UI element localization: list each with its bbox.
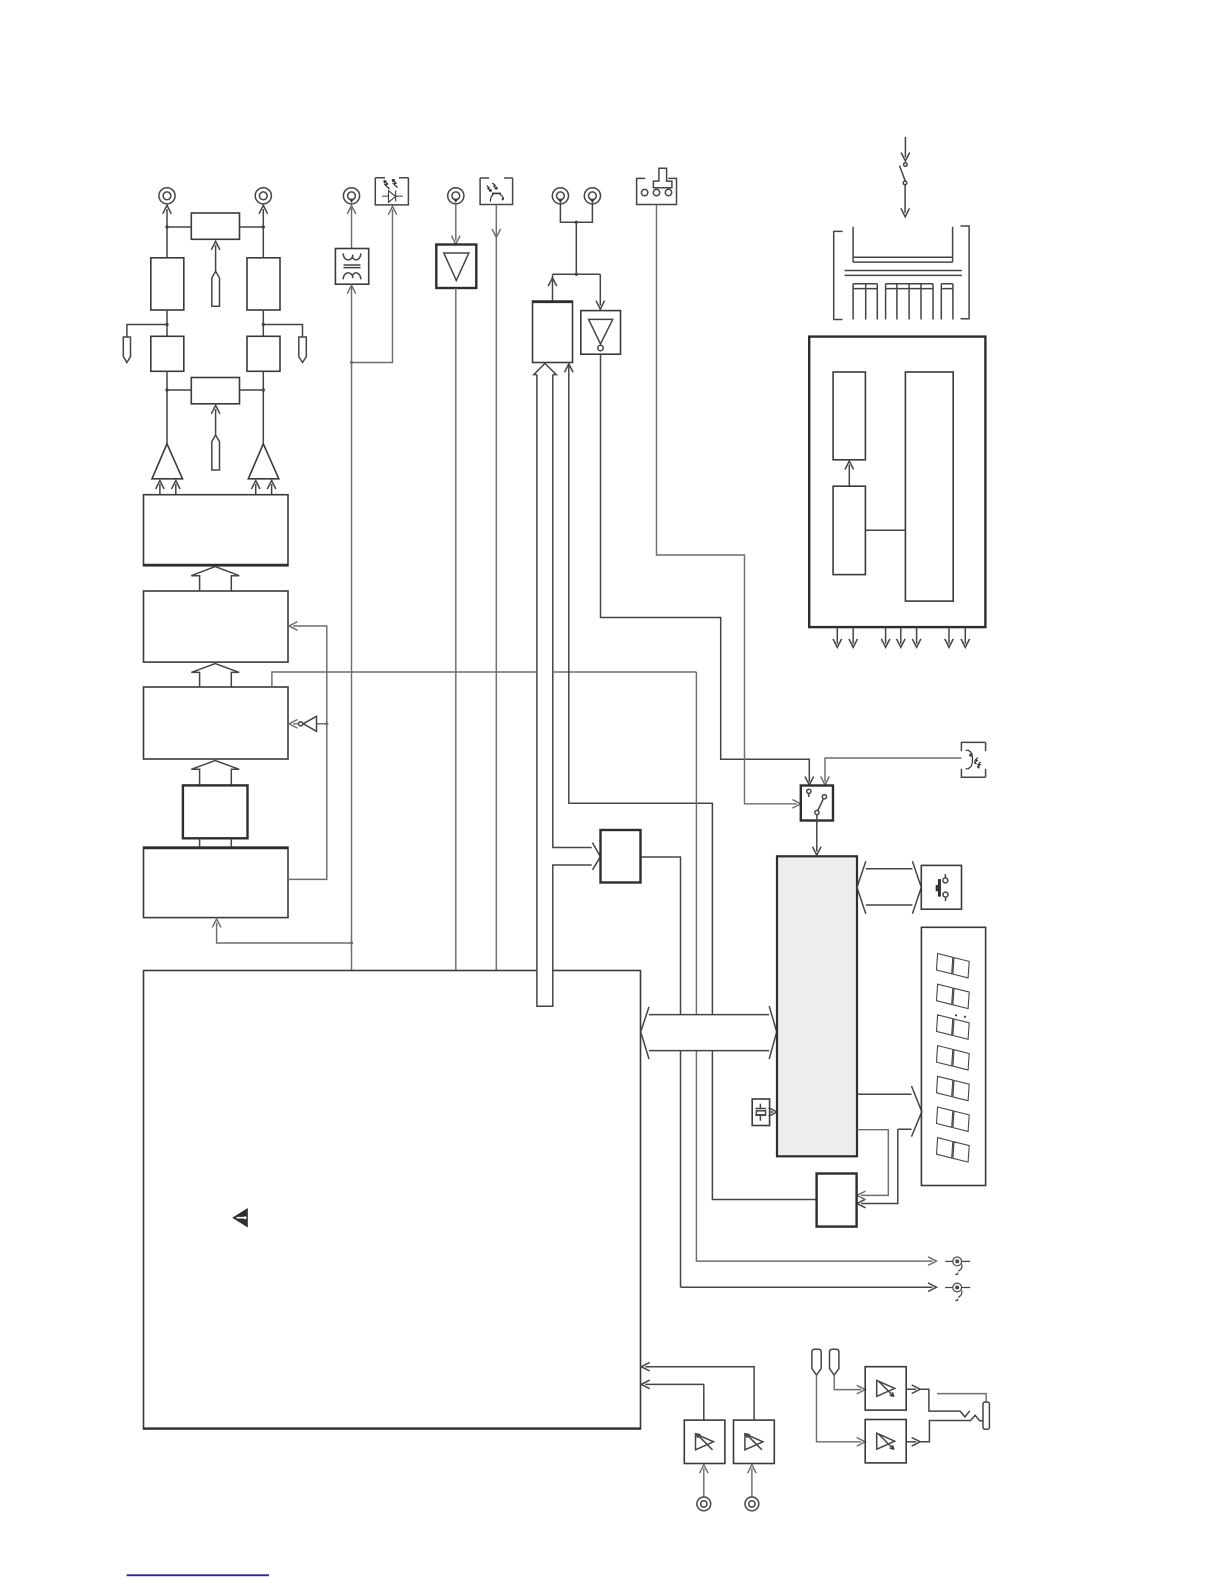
wire arrow up into J2 xyxy=(262,209,264,227)
audio out box xyxy=(533,301,573,363)
wire mute box down xyxy=(601,354,810,782)
terminal J6 xyxy=(584,188,600,204)
node on AGC line xyxy=(325,722,328,725)
links xyxy=(200,838,232,847)
arrow up from audio box xyxy=(552,274,554,301)
speaker amp triangle R xyxy=(248,444,278,479)
regulator box 1 xyxy=(833,372,865,460)
transformer windings xyxy=(343,253,361,279)
rec out jack 2 xyxy=(945,1283,970,1301)
wire xyxy=(167,227,263,258)
key button icon xyxy=(936,885,938,891)
tag label 2 xyxy=(212,435,220,470)
wire J3 to transformer xyxy=(351,206,353,249)
box trap R xyxy=(247,336,280,371)
LED indicator box xyxy=(375,178,408,205)
arrow down into mute box xyxy=(599,274,601,305)
wire down from junction xyxy=(575,222,577,274)
power supply outer box xyxy=(809,337,985,627)
arrow from tag1 up into matching box xyxy=(215,245,217,271)
wire down from PB2 with mid arrow to big box xyxy=(495,205,497,971)
hp amp box 2 xyxy=(865,1420,906,1463)
battery cells xyxy=(853,284,953,320)
attenuator box with triangle xyxy=(436,245,476,289)
box matching top xyxy=(191,213,239,239)
arrow up into transformer bottom xyxy=(347,285,356,294)
wire xyxy=(167,226,263,228)
long wire down from transformer to big box xyxy=(351,285,353,970)
arrow reg2 to reg1 xyxy=(848,465,850,486)
pin connector R xyxy=(299,337,307,363)
supply output arrows xyxy=(837,627,965,644)
wire PB3 to switch box xyxy=(825,758,961,782)
speaker amp triangle L xyxy=(152,444,183,479)
hp amp box 1 xyxy=(865,1367,906,1410)
band switch box xyxy=(801,786,833,821)
branch wire to LED indicator xyxy=(352,210,393,363)
jack sleeve xyxy=(983,1402,989,1429)
terminal J3 ext antenna xyxy=(343,188,359,204)
jack tip line xyxy=(937,1394,986,1403)
terminal J1 xyxy=(159,188,175,204)
terminal J2 xyxy=(255,188,271,204)
PB3 symbol xyxy=(966,750,981,769)
colon dots xyxy=(955,1014,957,1016)
LED symbol xyxy=(382,179,403,202)
terminal J5 xyxy=(552,188,568,204)
wire split to audio and mute boxes xyxy=(553,273,601,275)
arrows up into amp R xyxy=(255,484,257,495)
AGC feedback loop xyxy=(288,626,327,879)
long control line to demod xyxy=(272,672,697,687)
wire arrow up into J3 xyxy=(347,206,356,215)
remote photo sensor box PB3 xyxy=(961,742,985,777)
regulator box 2 xyxy=(833,486,865,574)
wire arrow up into J1 xyxy=(166,209,168,227)
key matrix double arrow xyxy=(857,861,921,914)
wire DC-in to power switch box xyxy=(657,205,797,804)
AF filter box xyxy=(144,591,289,662)
wire attenuator down to big box xyxy=(455,288,457,971)
wire switch box to MCU xyxy=(816,821,818,852)
terminal J7 xyxy=(697,1497,711,1511)
IF amp box xyxy=(144,847,289,918)
terminal J4 xyxy=(448,188,464,204)
wire crystal to MCU xyxy=(770,1111,774,1113)
node dot xyxy=(575,221,578,224)
mixer / PLL box xyxy=(601,830,641,883)
hp amp 2 output to jack contact xyxy=(906,1441,916,1443)
IF signal line from audio box down around to option box xyxy=(569,364,817,1200)
box filter R xyxy=(247,258,280,310)
wires joining J5 J6 xyxy=(560,203,592,222)
wire xyxy=(167,310,263,336)
data bus big arrow white fill xyxy=(534,363,557,1006)
option/backup box xyxy=(817,1174,857,1227)
block arrow 3 xyxy=(191,761,239,786)
box trap L xyxy=(151,336,184,371)
crystal box xyxy=(752,1099,769,1126)
tune arrows from volume amps into big box xyxy=(645,1367,754,1420)
IF filter box xyxy=(183,785,248,838)
hp amp 1 output to jack contact xyxy=(906,1388,916,1390)
node dots xyxy=(165,323,168,326)
photo sensor box PB2 xyxy=(480,178,512,205)
node dot xyxy=(350,941,353,944)
node dot xyxy=(575,273,578,276)
volume pot box 1 xyxy=(684,1420,725,1463)
crystal X1 symbol xyxy=(755,1104,766,1121)
transformer T1 box xyxy=(335,249,368,285)
key box xyxy=(921,865,961,909)
footer link line xyxy=(127,1574,269,1576)
control bus double arrow between big box and MCU xyxy=(641,1006,777,1059)
line from mixer out down to rec out 2 xyxy=(641,857,933,1287)
wire from ext ant line into IF amp bottom xyxy=(217,923,352,943)
box filter L xyxy=(151,258,184,310)
wire down from J4 with arrow into attenuator xyxy=(455,204,457,240)
node dots xyxy=(165,388,168,391)
arrows up into amp L xyxy=(159,484,161,495)
tag label 1 xyxy=(212,271,220,306)
dc-dc tall box xyxy=(905,372,953,601)
arrows from terminals up into volume pots xyxy=(703,1468,705,1496)
wire xyxy=(167,371,263,444)
branch to option box gray xyxy=(857,1130,888,1196)
jack insert mark J3 xyxy=(349,199,354,203)
wires tags to hp amps xyxy=(834,1375,861,1390)
terminal J8 xyxy=(745,1497,759,1511)
LCD digit rows xyxy=(937,954,970,978)
main tuner IC box xyxy=(144,971,641,1429)
node at LED branch xyxy=(350,361,353,364)
block arrow 2 xyxy=(191,664,239,687)
jack insert mark J4 xyxy=(453,199,458,203)
rec out jack 1 xyxy=(945,1257,970,1275)
power on switch symbol xyxy=(900,137,910,217)
band switch contacts xyxy=(807,789,827,820)
link line xyxy=(865,529,905,531)
demod box xyxy=(144,687,289,759)
LCD display box xyxy=(921,927,985,1185)
small arrows inside J5 J6 xyxy=(558,199,563,204)
volume pot box 2 xyxy=(734,1420,775,1463)
node dots xyxy=(165,225,168,228)
arrow from tag2 up into box xyxy=(215,409,217,435)
branch to option box dark xyxy=(861,1129,898,1203)
line y672 down to rec out 1 xyxy=(696,672,932,1261)
block arrow 1 xyxy=(191,567,239,591)
photo sensor symbol xyxy=(487,183,504,202)
wire branch to pin L xyxy=(127,325,167,338)
pin connector L xyxy=(123,337,130,363)
battery holder brackets xyxy=(834,231,843,319)
display segment drive arrow xyxy=(857,1094,912,1129)
mic capsule tag L xyxy=(812,1349,821,1375)
box matching bottom xyxy=(191,378,239,404)
band indicator triangle inside xyxy=(232,1208,248,1228)
MCU system controller box xyxy=(777,856,857,1156)
mic capsule tag R xyxy=(830,1349,839,1375)
mute box with inverter triangle xyxy=(581,311,621,355)
inverter into demod box xyxy=(317,723,327,725)
wire xyxy=(167,389,263,391)
mixer block arrow xyxy=(552,848,592,866)
wire branch to pin R xyxy=(263,325,302,338)
battery holder tray xyxy=(845,227,962,276)
AF amp box xyxy=(144,495,289,566)
DC-in connector icon xyxy=(637,168,677,204)
